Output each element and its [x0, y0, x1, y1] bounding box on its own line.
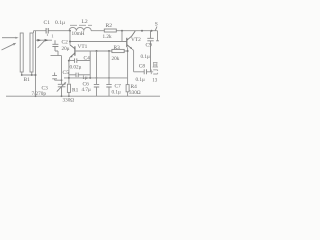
wire riser x122 [121, 31, 123, 42]
node dot emitter rail [68, 77, 70, 79]
node dot gnd x35.5 [35, 95, 37, 97]
node dot tank left [35, 74, 37, 76]
wire VT1 emitter down [68, 57, 71, 83]
transistor VT2 [127, 31, 135, 50]
wire output line y72 [134, 71, 152, 73]
svg-text:4.7μ: 4.7μ [82, 87, 91, 93]
switch S tick top right [155, 27, 157, 31]
jack J [151, 70, 157, 75]
node dot x109 rail [108, 77, 110, 79]
svg-text:20k: 20k [112, 56, 120, 62]
node dot bottom winding 2 [31, 74, 33, 76]
svg-text:0.1μ: 0.1μ [136, 77, 145, 83]
resistor R1 [68, 92, 70, 96]
wave arrow 2 [2, 43, 17, 50]
svg-text:1μ: 1μ [82, 75, 88, 81]
svg-text:C5: C5 [63, 70, 70, 76]
resistor R2 [104, 29, 116, 32]
wire VT2 emitter down [132, 49, 133, 72]
svg-text:R2: R2 [106, 23, 113, 29]
svg-text:20μ: 20μ [62, 46, 70, 52]
svg-text:C8: C8 [139, 63, 146, 69]
node dot base x109 [108, 50, 110, 52]
node dot x96.5 rail [96, 77, 98, 79]
transistor VT1 [70, 45, 75, 58]
svg-text:0.1μ: 0.1μ [112, 90, 121, 96]
wire base to right y51 [75, 47, 128, 78]
wire decouple rail y78 [64, 77, 128, 79]
node dot feedback left [69, 41, 71, 43]
wire top rail [34, 30, 158, 32]
wire C2 to base chain [51, 51, 62, 56]
svg-text:S: S [155, 21, 158, 27]
node dot C3 stub [61, 79, 63, 81]
svg-text:C9: C9 [146, 43, 153, 49]
capacitor C6 [94, 84, 99, 87]
svg-text:1: 1 [51, 34, 53, 39]
svg-text:R3: R3 [114, 45, 121, 51]
node dot at x151.5 [151, 30, 153, 32]
capacitor C5 branch [69, 73, 90, 78]
slash mark [38, 41, 45, 48]
node dot emitter [68, 60, 70, 62]
wire antenna bottoms [22, 72, 36, 75]
node dot x90 rail [89, 77, 91, 79]
svg-text:C2: C2 [62, 40, 69, 46]
svg-text:C4: C4 [84, 56, 91, 62]
resistor R3 [112, 49, 124, 52]
svg-text:0.1μ: 0.1μ [55, 20, 65, 26]
diode arrow 2 [45, 39, 49, 42]
node dot at x142 [141, 30, 143, 32]
svg-text:13: 13 [152, 78, 158, 83]
capacitor C7 [106, 84, 111, 87]
svg-text:VT2: VT2 [131, 37, 141, 43]
wire left vertical tank [35, 31, 37, 97]
capacitor C9 [147, 31, 153, 72]
node dot at x122 [121, 30, 123, 32]
capacitor C4 branch [69, 58, 90, 63]
svg-text:0.02μ: 0.02μ [70, 65, 82, 71]
wire VT1 collector up [69, 31, 71, 45]
svg-text:330Ω: 330Ω [129, 90, 141, 96]
wire x90 vertical [89, 51, 91, 78]
svg-text:R1: R1 [72, 88, 79, 94]
svg-text:VT1: VT1 [78, 44, 88, 50]
node dot base x127.6 [127, 50, 129, 52]
capacitor C8 [144, 69, 146, 74]
label earphone [153, 63, 158, 68]
pin tick under C1 [46, 34, 48, 36]
resistor R4 [127, 78, 129, 96]
svg-text:B1: B1 [24, 77, 31, 83]
node dot gnd x61.5 [61, 95, 63, 97]
svg-text:L2: L2 [82, 19, 88, 25]
node dot A (collector VT1 to rail) [69, 30, 71, 32]
inductor L2 [69, 27, 91, 30]
wire C6 vertical [96, 51, 98, 96]
wire collector feedback y41.5 [70, 41, 126, 43]
wire tuning vertical [61, 56, 63, 85]
transformer B1 winding 1 [20, 33, 23, 72]
core of L2 (dashed) [70, 24, 92, 26]
svg-text:C1: C1 [44, 20, 51, 26]
wire C7 vertical [108, 51, 110, 96]
node dot gnd x68.9 [68, 95, 70, 97]
diode arrow 1 [37, 39, 41, 42]
node dot base x96.5 [96, 50, 98, 52]
node dot bottom winding 1 [21, 74, 23, 76]
capacitor C2 [52, 40, 58, 51]
svg-text:0.1μ: 0.1μ [141, 54, 150, 60]
wire tap y40 [36, 39, 53, 41]
svg-text:10mH: 10mH [72, 31, 85, 37]
capacitor C1 [46, 28, 48, 34]
svg-text:1.2k: 1.2k [103, 34, 112, 40]
wave arrow 1 [2, 37, 19, 39]
wire rail end down [156, 31, 159, 41]
ground rail [6, 95, 160, 97]
wire riser antenna to rail [33, 31, 35, 33]
svg-text:330Ω: 330Ω [63, 98, 75, 104]
variable capacitor C3 [57, 82, 67, 96]
trimmer tap [52, 73, 61, 81]
transformer B1 winding 2 [30, 33, 33, 72]
svg-text:7/270p: 7/270p [32, 91, 47, 97]
